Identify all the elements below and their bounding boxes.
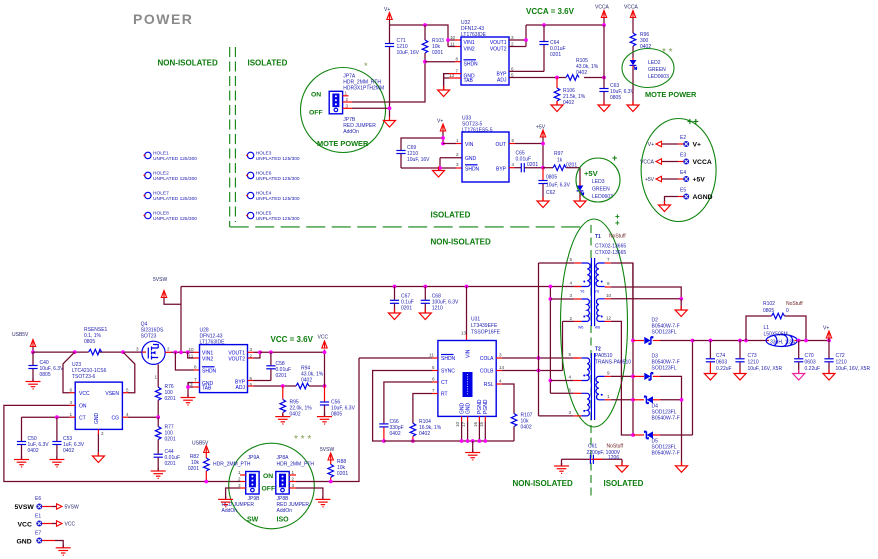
svg-text:7: 7 — [432, 388, 435, 393]
resistor R103 — [422, 25, 444, 62]
op-amp U28 body — [188, 328, 253, 393]
capacitor C70 — [794, 341, 820, 374]
svg-text:ON: ON — [311, 92, 321, 99]
op-amp U31 body — [429, 317, 505, 417]
svg-text:10uF, 16V, X5R: 10uF, 16V, X5R — [748, 366, 783, 372]
wire T1 pin5 from COLA vertical — [539, 262, 575, 264]
svg-text:2: 2 — [456, 152, 459, 157]
svg-text:VIN: VIN — [465, 142, 474, 148]
node VIN junction — [441, 142, 445, 146]
svg-text:E3: E3 — [680, 153, 686, 159]
power flag +5V — [536, 125, 546, 144]
svg-text:ADJ: ADJ — [236, 385, 246, 391]
power flag 5VSW (Q4) — [153, 277, 181, 304]
wire ON loop to jumper SW — [4, 405, 240, 481]
svg-text:VCC = 3.6V: VCC = 3.6V — [271, 335, 314, 344]
svg-text:RT: RT — [441, 392, 448, 398]
wire output rail — [693, 340, 830, 342]
ground under U33 — [433, 167, 445, 178]
svg-text:E2: E2 — [680, 135, 686, 141]
wire JP7 pin2 to SHDN — [352, 62, 425, 102]
svg-text:OUT: OUT — [495, 142, 506, 148]
wire VCCA rail — [526, 24, 604, 26]
test point E5 AGND — [665, 188, 713, 206]
svg-text:4: 4 — [126, 412, 129, 417]
svg-text:SOD123FL: SOD123FL — [652, 366, 677, 372]
svg-text:1206: 1206 — [608, 455, 619, 461]
svg-text:2: 2 — [346, 97, 349, 102]
wire VIN — [443, 143, 456, 145]
wire Q4 gate down — [157, 364, 159, 387]
diode D3 — [633, 354, 682, 466]
svg-text:LT1761ES5-5: LT1761ES5-5 — [462, 128, 493, 134]
svg-text:PGND: PGND — [483, 399, 489, 414]
svg-text:ON: ON — [263, 473, 273, 480]
svg-text:HDR_2MM_PTH: HDR_2MM_PTH — [213, 462, 251, 468]
diode D5 (reversed) — [633, 431, 692, 456]
svg-text:CTX02-13665: CTX02-13665 — [595, 244, 626, 250]
ground under C61 right — [616, 462, 628, 473]
svg-text:0402: 0402 — [390, 431, 401, 437]
wire T1 pin9 — [611, 287, 681, 299]
svg-text:VCCA: VCCA — [693, 159, 712, 166]
svg-text:0805: 0805 — [610, 95, 621, 101]
node C74 top — [709, 339, 713, 343]
annotation circle +5V LED — [576, 158, 620, 202]
svg-text:GND: GND — [17, 539, 32, 546]
svg-text:1: 1 — [155, 375, 158, 380]
transistor Q4 — [136, 322, 170, 380]
svg-text:11: 11 — [189, 354, 194, 359]
svg-text:0402: 0402 — [576, 70, 587, 76]
svg-text:ADJ: ADJ — [497, 78, 507, 84]
svg-text:VCCA: VCCA — [624, 5, 639, 11]
test point E2 — [648, 135, 701, 149]
svg-text:4: 4 — [499, 379, 502, 384]
svg-text:10: 10 — [455, 421, 460, 427]
ground under C62 — [537, 197, 549, 208]
node C66 bottom — [382, 439, 386, 443]
diode D2 — [633, 318, 693, 345]
svg-text:1: 1 — [456, 138, 459, 143]
svg-text:+5V: +5V — [693, 177, 706, 184]
svg-text:16: 16 — [473, 421, 478, 427]
node VIN junction — [446, 38, 450, 42]
node ADJ/C63 junction — [602, 76, 606, 80]
wire T2 pin1 to D4 — [611, 399, 633, 401]
svg-text:SHDN: SHDN — [441, 356, 456, 362]
svg-text:UNPLATED 125/300: UNPLATED 125/300 — [256, 156, 300, 162]
svg-text:0.22uF: 0.22uF — [716, 366, 732, 372]
node C67 top — [393, 285, 397, 289]
wire D2 cathode to D5 vertical — [692, 341, 694, 436]
svg-text:HOLE2: HOLE2 — [153, 171, 169, 177]
node BYP/C62/R97 junction — [541, 166, 545, 170]
ground under U28 — [181, 395, 196, 405]
svg-text:RSL: RSL — [484, 382, 494, 388]
svg-text:0402: 0402 — [521, 425, 532, 431]
svg-text:HDR_2MM_PTH: HDR_2MM_PTH — [277, 462, 315, 468]
svg-text:7: 7 — [607, 257, 610, 262]
svg-text:0201: 0201 — [566, 163, 577, 169]
svg-text:1210: 1210 — [748, 360, 759, 366]
svg-text:TRANS-PA0510: TRANS-PA0510 — [595, 360, 631, 366]
node C58 top — [269, 350, 273, 354]
svg-text:5: 5 — [512, 138, 515, 143]
node kelvin right — [121, 350, 125, 354]
resistor R88 pullup — [320, 447, 348, 482]
ground under C70 (highlighted) — [793, 370, 805, 381]
node R82/ON junction — [204, 480, 208, 484]
wire VIN riser — [466, 287, 468, 341]
svg-text:Y8: Y8 — [595, 290, 599, 294]
svg-text:1: 1 — [292, 470, 295, 475]
svg-text:JP9A: JP9A — [248, 455, 261, 461]
capacitor C53 — [52, 417, 84, 459]
svg-text:0201: 0201 — [188, 466, 199, 472]
wire kelvin sense right to VSEN — [123, 352, 135, 393]
power flag VCCA (LED branch) — [624, 5, 639, 34]
annotation circle LED2 — [622, 49, 674, 88]
svg-text:VIN: VIN — [466, 349, 472, 358]
jumper JP9A — [213, 455, 260, 494]
svg-text:0603: 0603 — [716, 360, 727, 366]
svg-text:1210: 1210 — [836, 360, 847, 366]
capacitor C56 — [320, 386, 356, 418]
wire T1 pin7 to D2 — [611, 263, 633, 341]
svg-text:MOTE POWER: MOTE POWER — [645, 90, 697, 99]
svg-text:VCC: VCC — [318, 335, 329, 341]
wire JP8A pin3 to ground — [296, 488, 323, 499]
ground under C72 — [823, 370, 835, 381]
svg-text:6: 6 — [70, 387, 73, 392]
svg-text:CTX02-13665: CTX02-13665 — [595, 250, 626, 256]
jumper JP7A — [329, 74, 384, 114]
capacitor C66 — [379, 419, 403, 441]
svg-text:GREEN: GREEN — [648, 67, 666, 73]
svg-text:SHDN: SHDN — [202, 369, 217, 375]
svg-text:0805: 0805 — [546, 175, 557, 181]
annotation circle jumpers — [229, 443, 315, 529]
svg-text:HOLE1: HOLE1 — [153, 151, 169, 157]
svg-text:9: 9 — [607, 370, 610, 375]
svg-text:4: 4 — [512, 162, 515, 167]
node C71/JP7 pin3 junction — [388, 106, 392, 110]
svg-text:15: 15 — [479, 421, 484, 427]
capacitor C64 — [539, 25, 565, 71]
ground under C40 — [26, 379, 41, 389]
node output junction — [691, 339, 695, 343]
svg-text:+5V: +5V — [584, 169, 599, 178]
wire T2 pin4 tap — [550, 380, 573, 382]
node VIN2 stair junction — [186, 350, 190, 354]
svg-text:8: 8 — [456, 57, 459, 62]
svg-text:SW: SW — [247, 517, 259, 524]
svg-text:MOTE POWER: MOTE POWER — [317, 139, 369, 148]
node COLB junction — [537, 369, 541, 373]
svg-text:5VSW: 5VSW — [153, 277, 167, 283]
svg-text:VCCA: VCCA — [595, 5, 610, 11]
svg-text:GND: GND — [465, 403, 471, 415]
annotation circle MOTE POWER — [301, 68, 386, 153]
svg-text:GND: GND — [94, 413, 100, 425]
svg-text:5: 5 — [569, 257, 572, 262]
resistor R102 bypass — [746, 301, 806, 341]
op-amp U23 body — [70, 362, 130, 436]
svg-text:OFF: OFF — [262, 486, 276, 493]
svg-text:3: 3 — [238, 483, 241, 488]
node bypass left — [744, 339, 748, 343]
node SHDN junction — [423, 60, 427, 64]
resistor R96 — [630, 32, 651, 58]
svg-text:11: 11 — [429, 353, 434, 358]
svg-text:LED2: LED2 — [648, 60, 661, 66]
svg-text:0201: 0201 — [337, 471, 348, 477]
annotation ellipse test points — [641, 119, 716, 222]
transformer T1 — [569, 234, 626, 330]
wire Q4 drain to U28 — [165, 351, 199, 353]
svg-text:UNPLATED 125/300: UNPLATED 125/300 — [256, 216, 300, 222]
svg-text:0402: 0402 — [28, 448, 39, 454]
svg-text:10uF, 16V: 10uF, 16V — [397, 50, 420, 56]
node D4 row — [631, 398, 635, 402]
inductor L1 — [764, 325, 798, 347]
svg-text:0201: 0201 — [165, 461, 176, 467]
svg-text:E7: E7 — [35, 531, 41, 537]
wire VCC rail — [260, 351, 325, 353]
svg-text:3: 3 — [136, 347, 139, 352]
svg-text:ON: ON — [79, 404, 87, 410]
svg-text:SYNC: SYNC — [441, 369, 455, 375]
svg-text:LED0603: LED0603 — [648, 74, 669, 80]
node gnd junction — [438, 166, 442, 170]
svg-text:1k: 1k — [557, 158, 563, 164]
svg-text:0.22uF: 0.22uF — [805, 366, 821, 372]
svg-text:HOLE6: HOLE6 — [256, 171, 272, 177]
svg-text:GND: GND — [465, 156, 477, 162]
ground under LED2 — [627, 101, 639, 112]
svg-text:VOUT2: VOUT2 — [228, 356, 245, 362]
svg-text:C72: C72 — [836, 353, 845, 359]
wire U28 SHDN tie — [175, 352, 199, 370]
svg-text:9: 9 — [607, 281, 610, 286]
resistor R107 — [511, 413, 532, 442]
svg-text:LT1763IDE: LT1763IDE — [461, 32, 487, 38]
transformer T2 — [568, 347, 631, 421]
wire input rail — [33, 351, 142, 353]
ground under C73 — [734, 370, 746, 381]
hole HOLE1 — [143, 151, 197, 163]
svg-text:UNPLATED 125/300: UNPLATED 125/300 — [153, 216, 197, 222]
svg-text:UNPLATED 125/300: UNPLATED 125/300 — [153, 196, 197, 202]
svg-text:0402: 0402 — [301, 378, 312, 384]
svg-text:5: 5 — [511, 73, 514, 78]
ground under C56 — [317, 414, 332, 424]
wire U32 GND/TAB to ground — [444, 74, 461, 90]
T1 winding primary B (pins 3-2) — [581, 299, 589, 321]
capacitor C61 (Y-cap) — [562, 444, 624, 467]
svg-text:0805: 0805 — [40, 372, 51, 378]
diode D4 (reversed) — [633, 396, 682, 421]
svg-text:NON-ISOLATED: NON-ISOLATED — [431, 238, 492, 247]
svg-text:NoStuff: NoStuff — [786, 301, 803, 307]
svg-text:5VSW: 5VSW — [320, 447, 334, 453]
capacitor C58 — [266, 352, 291, 380]
wire RSL to R107 — [496, 384, 514, 414]
svg-text:B0540W-7-F: B0540W-7-F — [652, 451, 680, 457]
LED LED2 — [630, 58, 669, 105]
ground under C53 — [49, 457, 64, 467]
svg-text:LT1763IDE: LT1763IDE — [200, 340, 226, 346]
node gate/CG junction — [156, 415, 160, 419]
node bus junctions — [460, 439, 464, 443]
svg-text:0201: 0201 — [401, 306, 412, 312]
svg-text:B0540W-7-F: B0540W-7-F — [652, 416, 680, 422]
resistor R77 — [155, 417, 175, 454]
svg-text:AddOn: AddOn — [222, 508, 238, 514]
node bypass right — [804, 339, 808, 343]
svg-text:4: 4 — [569, 281, 572, 286]
svg-text:W6: W6 — [578, 326, 583, 330]
ground under C50 — [14, 457, 29, 467]
svg-text:VOUT1: VOUT1 — [490, 40, 507, 46]
wire COLA row — [496, 357, 578, 359]
resistor R106 — [554, 78, 586, 107]
svg-text:HOLE4: HOLE4 — [256, 191, 272, 197]
wire VIN2 stub — [448, 46, 455, 48]
svg-text:VCC: VCC — [79, 391, 90, 397]
capacitor C72 — [824, 341, 870, 374]
svg-text:12: 12 — [606, 316, 612, 321]
test point E7 GND — [17, 531, 64, 548]
annotation ellipse transformers — [561, 219, 628, 427]
ground under E7 — [56, 545, 71, 555]
svg-text:0201: 0201 — [527, 162, 538, 168]
hole HOLE7 — [143, 191, 197, 203]
wire ADJ net — [509, 77, 604, 79]
svg-text:5: 5 — [126, 387, 129, 392]
resistor R104 — [410, 419, 442, 441]
capacitor C62 — [538, 168, 570, 201]
hole HOLE8 — [143, 211, 197, 223]
resistor R105 — [566, 58, 599, 80]
wire JP9A pin3 to ground — [226, 488, 240, 499]
svg-text:T1: T1 — [595, 234, 601, 240]
svg-text:AGND: AGND — [693, 194, 713, 201]
wire T1 pin10 — [611, 298, 681, 300]
svg-text:E4: E4 — [680, 170, 686, 176]
wire T1 pin5 / T2 pin3 vertical — [538, 263, 540, 416]
wire T2 pin3 from COLB — [539, 415, 574, 417]
svg-text:10: 10 — [450, 35, 456, 40]
wire VOUT1/VOUT2 join — [509, 25, 528, 47]
svg-text:COLB: COLB — [480, 369, 494, 375]
svg-text:NON-ISOLATED: NON-ISOLATED — [158, 59, 219, 68]
svg-text:1: 1 — [607, 394, 610, 399]
T1 winding primary A (pins 5-4) — [581, 263, 590, 286]
svg-text:7: 7 — [194, 377, 197, 382]
svg-text:3: 3 — [499, 353, 502, 358]
node C69 junction — [441, 136, 445, 140]
svg-text:10: 10 — [606, 293, 612, 298]
svg-text:AddOn: AddOn — [343, 129, 359, 135]
svg-text:0805: 0805 — [84, 339, 95, 345]
wire BYP to C58 — [248, 380, 271, 382]
wire to ground (T1 sec) — [680, 299, 682, 310]
node D5 row — [631, 433, 635, 437]
svg-text:3: 3 — [292, 483, 295, 488]
svg-text:3: 3 — [346, 103, 349, 108]
svg-text:4: 4 — [568, 375, 571, 380]
power flag V+ — [384, 7, 392, 25]
capacitor C69 — [396, 145, 430, 168]
svg-text:2: 2 — [167, 347, 170, 352]
node D3 anode — [631, 375, 635, 379]
svg-text:LED3: LED3 — [592, 179, 605, 185]
svg-text:0201: 0201 — [432, 50, 443, 56]
svg-text:5VSW: 5VSW — [65, 505, 79, 511]
ground under C63 — [598, 101, 610, 112]
capacitor C50 — [17, 417, 49, 459]
svg-text:USB5V: USB5V — [12, 332, 29, 338]
wire JP7 pin3 to gnd node — [352, 107, 390, 109]
jumper JP8A — [276, 455, 315, 494]
wire U31 bottom pins — [455, 416, 485, 441]
svg-text:HOLE3: HOLE3 — [256, 151, 272, 157]
svg-text:ISOLATED: ISOLATED — [431, 211, 471, 220]
ground under U31 bus — [465, 450, 480, 460]
capacitor C67 — [390, 287, 414, 314]
svg-text:0201: 0201 — [550, 52, 561, 58]
T2 winding secondary (pins 9-1) — [596, 376, 605, 399]
svg-text:6: 6 — [511, 66, 514, 71]
wire CT — [22, 416, 76, 418]
ground under C67 — [389, 309, 401, 320]
svg-text:L1: L1 — [764, 325, 770, 331]
wire C69 top — [401, 138, 443, 150]
test point E6 5VSW — [15, 496, 79, 511]
hole HOLE4 — [246, 191, 300, 203]
svg-text:*: * — [364, 61, 368, 71]
ground under C61 left — [554, 463, 569, 473]
svg-text:HOLE5: HOLE5 — [256, 211, 272, 217]
svg-text:3: 3 — [569, 293, 572, 298]
svg-text:6: 6 — [568, 387, 571, 392]
wire T2 pin6 tap — [550, 392, 573, 394]
wire COLB row — [496, 370, 562, 372]
svg-text:10uF, 16V, X5R: 10uF, 16V, X5R — [836, 366, 871, 372]
svg-text:HOLE8: HOLE8 — [153, 211, 169, 217]
node C73 top — [738, 339, 742, 343]
resistor R94 — [296, 366, 324, 389]
svg-text:NoStuff: NoStuff — [607, 444, 624, 450]
svg-text:TAB: TAB — [202, 385, 212, 391]
node kelvin left — [73, 350, 77, 354]
svg-text:UNPLATED 125/300: UNPLATED 125/300 — [153, 156, 197, 162]
svg-text:0201: 0201 — [165, 437, 176, 443]
wire JP8A pin2 to U31 SHDN — [296, 358, 359, 482]
svg-text:+: + — [615, 219, 620, 228]
svg-text:14: 14 — [499, 365, 505, 370]
svg-text:C73: C73 — [748, 353, 757, 359]
capacitor C40 — [28, 352, 64, 381]
svg-text:C62: C62 — [546, 190, 555, 196]
ground T1 secondary — [675, 306, 687, 317]
svg-text:1210: 1210 — [432, 306, 443, 312]
hole HOLE6 — [246, 171, 300, 183]
svg-text:2: 2 — [292, 477, 295, 482]
svg-text:+5V: +5V — [536, 125, 546, 131]
